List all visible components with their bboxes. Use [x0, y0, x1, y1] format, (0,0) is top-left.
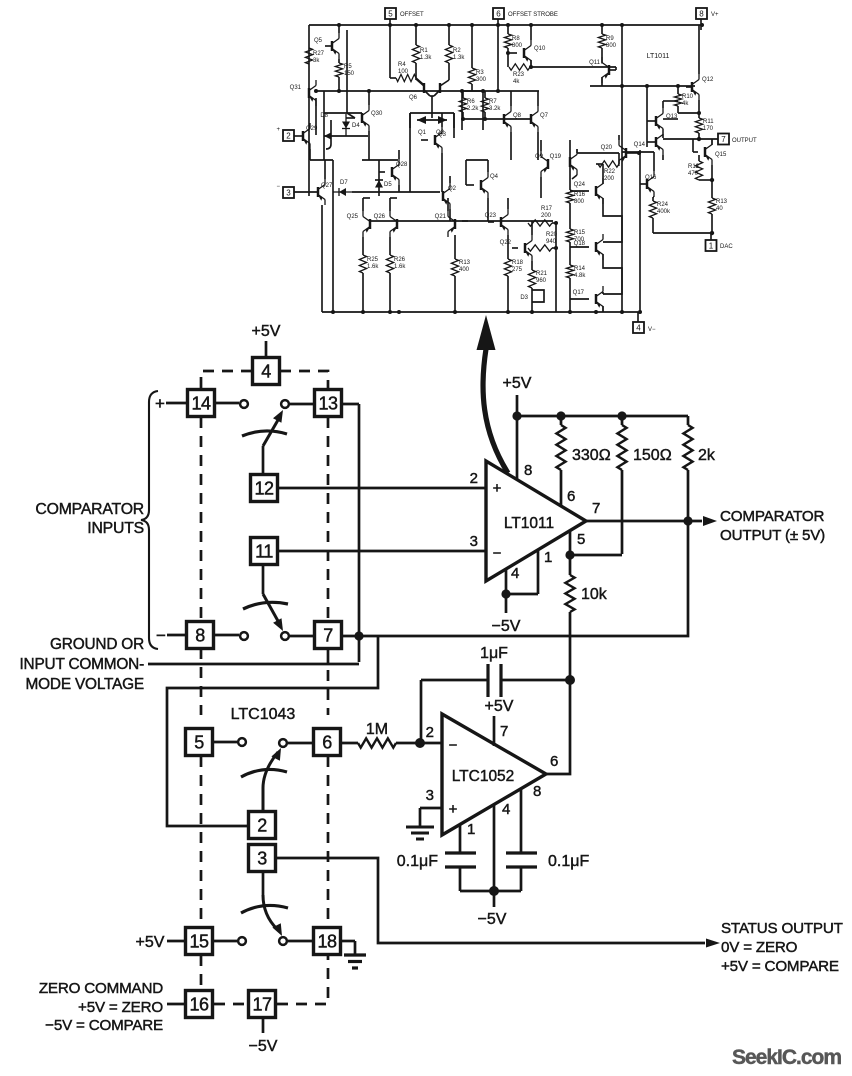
junction — [506, 51, 510, 55]
svg-text:4: 4 — [511, 565, 519, 582]
svg-text:2: 2 — [470, 470, 478, 487]
diode D8 — [320, 113, 331, 149]
svg-text:2k: 2k — [698, 447, 716, 464]
resistor R26 — [386, 255, 406, 312]
switch box 15 — [186, 928, 213, 955]
wire — [167, 940, 186, 943]
wire — [166, 402, 187, 405]
svg-text:800: 800 — [574, 199, 585, 205]
svg-text:6: 6 — [550, 753, 558, 770]
wire — [603, 198, 622, 242]
svg-text:4k: 4k — [682, 101, 689, 107]
wire — [362, 159, 398, 161]
wire — [507, 48, 509, 67]
junction — [337, 89, 341, 93]
svg-text:−: − — [449, 737, 458, 754]
svg-text:D5: D5 — [384, 182, 392, 188]
junction — [600, 23, 604, 27]
wire — [290, 403, 314, 406]
wire — [569, 612, 571, 680]
wire — [431, 113, 433, 118]
wire — [569, 140, 571, 157]
svg-text:330Ω: 330Ω — [572, 447, 611, 464]
svg-text:1.6k: 1.6k — [394, 264, 406, 270]
transistor Q17 — [570, 286, 603, 312]
svg-text:0V = ZERO: 0V = ZERO — [721, 939, 798, 956]
wire — [262, 1018, 265, 1033]
switch contact — [281, 632, 289, 640]
svg-text:8: 8 — [524, 462, 532, 479]
svg-text:COMPARATOR: COMPARATOR — [35, 501, 144, 518]
svg-text:940: 940 — [546, 239, 557, 245]
wire — [346, 117, 355, 119]
wire — [622, 151, 654, 153]
transistor Q6 dual — [409, 79, 449, 113]
pin 7 OUTPUT — [699, 134, 757, 145]
node — [697, 137, 701, 141]
wire — [213, 741, 237, 744]
transistor Q2b — [443, 176, 457, 221]
svg-text:Q17: Q17 — [573, 290, 585, 296]
svg-text:1: 1 — [467, 821, 475, 838]
wire — [342, 403, 359, 406]
svg-text:−5V = COMPARE: −5V = COMPARE — [45, 1017, 163, 1034]
svg-text:7: 7 — [323, 625, 333, 645]
svg-text:3: 3 — [470, 533, 478, 550]
svg-text:5: 5 — [577, 531, 585, 548]
junction — [481, 89, 485, 93]
arrowhead status — [706, 939, 720, 948]
wire — [466, 159, 488, 161]
junction — [645, 84, 649, 88]
transistor pair Q1 Q2 — [410, 113, 454, 138]
wire — [555, 223, 557, 312]
node — [354, 631, 363, 640]
transistor Q23 — [485, 198, 508, 259]
wire — [390, 197, 397, 199]
svg-text:Q10: Q10 — [534, 46, 546, 52]
svg-text:Q18: Q18 — [574, 241, 586, 247]
svg-text:0.1μF: 0.1μF — [548, 853, 589, 870]
label GROUND OR INPUT COMMON-MODE VOLTAGE — [19, 636, 144, 693]
wire — [463, 90, 539, 92]
resistor R1 — [412, 25, 432, 80]
junction — [506, 23, 510, 27]
junction — [447, 23, 451, 27]
resistor 150ohm — [617, 416, 671, 554]
wire — [389, 30, 391, 78]
diode D7 — [333, 180, 352, 196]
wire — [342, 635, 359, 638]
transistor Q21 — [435, 198, 468, 237]
svg-text:R4: R4 — [398, 62, 406, 68]
svg-text:Q24: Q24 — [574, 182, 586, 188]
svg-text:COMPARATOR: COMPARATOR — [720, 508, 825, 525]
transistor Q9 — [535, 140, 548, 198]
svg-text:R26: R26 — [394, 257, 406, 263]
transistor Q22 — [500, 221, 532, 270]
wire — [214, 634, 239, 637]
switch box 16 — [186, 991, 213, 1018]
junction — [676, 84, 680, 88]
svg-text:R25: R25 — [367, 257, 379, 263]
wire — [602, 292, 604, 294]
switch contact — [238, 937, 246, 945]
wire — [663, 100, 678, 102]
svg-text:R8: R8 — [512, 36, 520, 42]
resistor R20 — [528, 232, 558, 251]
svg-text:MODE VOLTAGE: MODE VOLTAGE — [26, 676, 144, 693]
wire — [653, 196, 654, 198]
transistor Q25 — [347, 198, 370, 255]
switch contact — [281, 400, 289, 408]
junction — [554, 221, 558, 225]
svg-text:Q28: Q28 — [396, 162, 408, 168]
wire dashed — [327, 756, 330, 927]
wire dashed — [200, 417, 203, 622]
svg-text:6: 6 — [567, 488, 575, 505]
svg-text:7: 7 — [721, 135, 726, 144]
switch box 4 — [253, 358, 280, 385]
switch box 11 — [251, 538, 278, 565]
svg-text:14: 14 — [191, 393, 211, 413]
svg-text:8: 8 — [533, 783, 541, 800]
svg-text:5: 5 — [388, 10, 393, 19]
svg-text:Q7: Q7 — [540, 113, 549, 119]
wire output — [586, 520, 702, 523]
svg-text:1μF: 1μF — [480, 645, 508, 662]
svg-text:INPUTS: INPUTS — [87, 520, 144, 537]
wire — [262, 446, 265, 474]
wire dashed — [280, 371, 328, 389]
wire — [577, 152, 619, 154]
junction — [554, 246, 558, 250]
transistor Q30 — [347, 30, 383, 160]
junction — [337, 23, 341, 27]
wire — [493, 891, 496, 907]
pin 5 OFFSET — [385, 8, 424, 30]
junction — [529, 23, 533, 27]
node — [617, 411, 626, 420]
wire — [167, 1003, 185, 1006]
switch contact — [240, 400, 248, 408]
svg-text:Q1: Q1 — [418, 130, 427, 136]
svg-text:+5V = COMPARE: +5V = COMPARE — [721, 958, 839, 975]
svg-text:OUTPUT (± 5V): OUTPUT (± 5V) — [720, 527, 825, 544]
junction — [496, 23, 500, 27]
svg-text:1.6k: 1.6k — [367, 264, 379, 270]
wire — [315, 98, 317, 135]
resistor R23 — [509, 64, 530, 85]
resistor R22 — [596, 153, 619, 182]
wire — [327, 649, 330, 664]
svg-text:R17: R17 — [541, 206, 553, 212]
resistor R18 — [504, 259, 523, 312]
node — [710, 231, 714, 235]
wire status — [277, 858, 705, 943]
wire — [602, 164, 604, 184]
svg-text:Q9: Q9 — [535, 154, 544, 160]
svg-text:Q14: Q14 — [634, 142, 646, 148]
junction — [496, 89, 500, 93]
svg-text:800: 800 — [606, 43, 617, 49]
svg-text:D7: D7 — [340, 180, 348, 186]
pin 3 -IN — [276, 184, 294, 198]
junction — [620, 310, 624, 314]
resistor 10k — [565, 575, 607, 680]
svg-text:D4: D4 — [352, 123, 360, 129]
svg-text:LT1011: LT1011 — [504, 515, 554, 532]
transistor Q14 — [634, 129, 663, 160]
wire — [646, 86, 648, 147]
junction — [331, 310, 335, 314]
svg-text:Q6: Q6 — [409, 95, 418, 101]
switch arm S4 — [241, 895, 288, 936]
svg-text:12: 12 — [254, 478, 274, 498]
svg-text:4: 4 — [636, 324, 641, 333]
resistor R13b — [708, 198, 727, 233]
label COMPARATOR INPUTS — [35, 501, 144, 537]
switch box 2 — [249, 812, 276, 839]
transistor Q20 — [601, 135, 639, 166]
svg-text:40: 40 — [716, 206, 723, 212]
svg-text:R13: R13 — [459, 260, 471, 266]
wire — [663, 138, 699, 140]
wire — [482, 91, 484, 130]
wire dashed — [200, 955, 203, 990]
svg-text:DAC: DAC — [720, 244, 733, 250]
wire — [358, 404, 361, 662]
svg-text:−: − — [276, 184, 280, 190]
wire pin5 — [569, 530, 572, 575]
wire — [416, 78, 424, 85]
resistor R3 — [468, 25, 486, 91]
svg-text:R27: R27 — [313, 51, 325, 57]
svg-text:D8: D8 — [320, 113, 328, 119]
wire dashed — [200, 756, 203, 927]
svg-text:R3: R3 — [476, 70, 484, 76]
svg-text:Q3: Q3 — [438, 132, 447, 138]
svg-text:3: 3 — [426, 787, 434, 804]
wire — [310, 159, 333, 161]
wire — [692, 139, 694, 152]
node — [683, 516, 692, 525]
wire — [290, 635, 314, 638]
wire — [603, 254, 622, 294]
switch arm S1 — [242, 410, 287, 446]
svg-text:1: 1 — [544, 549, 552, 566]
wire — [323, 91, 325, 160]
svg-text:R9: R9 — [606, 36, 614, 42]
switch box 14 — [188, 390, 215, 417]
wire — [316, 90, 483, 92]
transistor Q29 — [294, 123, 318, 160]
wire — [653, 232, 712, 234]
wire pin7 — [493, 716, 496, 746]
transistor Q8 — [504, 91, 522, 160]
wire — [308, 25, 310, 196]
wire — [309, 24, 701, 26]
brace comparator inputs — [141, 391, 158, 649]
node — [637, 151, 641, 155]
svg-text:R13: R13 — [716, 199, 728, 205]
diode D3 — [520, 290, 544, 302]
wire pin4 (1052) — [493, 804, 496, 891]
svg-text:8: 8 — [195, 625, 205, 645]
svg-text:Q30: Q30 — [371, 111, 383, 117]
junction — [620, 84, 624, 88]
svg-text:Q20: Q20 — [601, 145, 613, 151]
svg-text:Q11: Q11 — [589, 60, 601, 66]
svg-text:150Ω: 150Ω — [633, 447, 672, 464]
svg-text:LTC1052: LTC1052 — [452, 768, 515, 785]
capacitor 0.1uF right — [506, 853, 589, 891]
wire — [465, 160, 467, 185]
junction — [388, 23, 392, 27]
svg-text:R2: R2 — [453, 48, 461, 54]
transistor Q24 — [570, 178, 603, 204]
svg-text:+5V: +5V — [136, 934, 165, 951]
resistor R2 — [445, 25, 465, 80]
transistor Q7 — [531, 91, 549, 160]
svg-text:11: 11 — [255, 541, 273, 561]
svg-text:Q2: Q2 — [448, 186, 457, 192]
svg-text:170: 170 — [703, 126, 714, 132]
svg-text:Q15: Q15 — [715, 152, 727, 158]
wire output 1052 — [546, 680, 570, 774]
junction — [568, 310, 572, 314]
wire — [420, 742, 442, 745]
wire — [322, 311, 638, 313]
wire dashed — [201, 371, 252, 389]
wire — [621, 25, 623, 312]
svg-text:+: + — [493, 480, 502, 497]
svg-text:−5V: −5V — [249, 1038, 278, 1055]
wire pin3 line — [278, 550, 486, 553]
wire — [332, 160, 334, 312]
resistor R13 — [451, 235, 470, 312]
svg-text:Q5: Q5 — [314, 38, 323, 44]
wire dashed — [327, 417, 330, 622]
wire dashed — [277, 956, 328, 1004]
resistor 330ohm — [556, 416, 610, 507]
diode D5 — [375, 160, 392, 196]
junction — [460, 89, 464, 93]
svg-text:150: 150 — [344, 71, 355, 77]
svg-text:−5V: −5V — [478, 911, 507, 928]
wire — [699, 179, 712, 181]
junction — [700, 23, 704, 27]
wire — [324, 112, 362, 114]
svg-text:+5V: +5V — [252, 323, 281, 340]
wire base line — [463, 118, 531, 120]
svg-text:100: 100 — [398, 69, 409, 75]
svg-text:3k: 3k — [313, 58, 320, 64]
svg-text:−: − — [493, 545, 502, 562]
resistor R5 — [335, 59, 354, 91]
wire — [506, 593, 538, 596]
svg-text:15: 15 — [189, 931, 209, 951]
node — [565, 550, 574, 559]
node — [512, 411, 521, 420]
wire common-mode line — [148, 663, 359, 666]
svg-text:10k: 10k — [581, 586, 608, 603]
ground (1052 pin3) — [406, 808, 434, 839]
wire feedback from output — [359, 521, 688, 636]
svg-text:200: 200 — [541, 213, 552, 219]
resistor R10 — [674, 87, 699, 113]
junction — [453, 310, 457, 314]
svg-text:R11: R11 — [703, 119, 714, 125]
transistor Q10 — [508, 25, 546, 67]
svg-text:7: 7 — [592, 500, 600, 517]
svg-text:4k: 4k — [513, 79, 520, 85]
switch box 18 — [314, 928, 341, 955]
svg-text:R7: R7 — [489, 99, 497, 105]
diode D4 — [342, 114, 360, 136]
svg-text:INPUT COMMON-: INPUT COMMON- — [19, 656, 144, 673]
node — [415, 738, 425, 748]
junction — [367, 89, 371, 93]
svg-text:R1: R1 — [420, 48, 428, 54]
svg-text:0.1μF: 0.1μF — [397, 853, 438, 870]
svg-text:Q16: Q16 — [645, 175, 657, 181]
switch arm S2 — [243, 594, 288, 631]
big arrow to die schematic — [477, 315, 509, 473]
pin 6 OFFSET STROBE — [493, 8, 558, 30]
wire — [363, 197, 370, 199]
transistor Q4 — [466, 160, 499, 221]
wire — [570, 554, 622, 557]
wire — [497, 30, 499, 91]
wire dashed — [327, 670, 330, 715]
node — [565, 675, 575, 685]
wire — [711, 180, 713, 198]
node — [697, 111, 701, 115]
resistor R24 — [649, 197, 671, 233]
transistor Q13 — [647, 101, 678, 138]
svg-text:R18: R18 — [512, 260, 524, 266]
wire — [341, 940, 355, 943]
switch arm S3 — [241, 748, 287, 811]
node — [501, 589, 510, 598]
svg-text:−5V: −5V — [492, 618, 521, 635]
svg-text:Q12: Q12 — [702, 77, 714, 83]
svg-text:6: 6 — [322, 732, 332, 752]
switch contact — [238, 738, 246, 746]
junction — [314, 89, 318, 93]
label ZERO COMMAND — [39, 980, 164, 1034]
wire dashed — [200, 648, 203, 715]
svg-text:17: 17 — [252, 994, 272, 1014]
ground (pin18) — [344, 941, 366, 968]
label COMPARATOR OUTPUT — [720, 508, 825, 544]
resistor 2k — [683, 416, 715, 521]
transistor Q18 — [570, 234, 603, 260]
switch box 5 — [186, 729, 213, 756]
resistor R25 — [359, 255, 379, 312]
pin 8 V+ — [696, 8, 719, 30]
svg-text:D3: D3 — [520, 295, 528, 301]
svg-text:1.3k: 1.3k — [420, 55, 432, 61]
svg-text:Q21: Q21 — [435, 214, 447, 220]
switch box 3 — [249, 845, 276, 872]
wire — [213, 940, 237, 943]
svg-text:OUTPUT: OUTPUT — [732, 138, 757, 144]
svg-text:3.2k: 3.2k — [489, 106, 501, 112]
resistor R14 — [566, 242, 586, 312]
transistor Q27 — [294, 160, 333, 312]
